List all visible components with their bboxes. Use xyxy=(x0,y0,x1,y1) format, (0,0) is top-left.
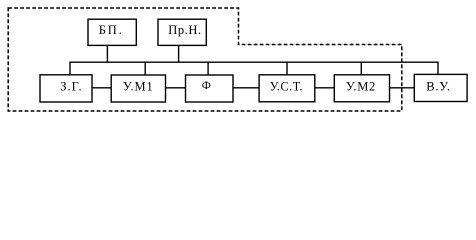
svg-text:Пр.Н.: Пр.Н. xyxy=(168,23,202,37)
wire UM1-F xyxy=(166,87,186,89)
svg-text:У.М2: У.М2 xyxy=(346,79,376,93)
wire UST-UM2 xyxy=(315,87,335,89)
block VU (output amplifier) xyxy=(414,74,467,101)
block BP (power supply) xyxy=(88,19,136,45)
block UM2 xyxy=(334,75,389,102)
block PrN xyxy=(158,19,206,45)
svg-text:В.У.: В.У. xyxy=(426,79,451,93)
block diagram of a transmitter/receiver system xyxy=(0,0,476,124)
svg-text:З.Г.: З.Г. xyxy=(60,80,82,94)
wire bus to UST xyxy=(286,62,288,75)
wire BP to bus xyxy=(106,45,108,62)
svg-text:У.М1: У.М1 xyxy=(123,80,154,94)
dashed enclosure outline xyxy=(8,8,402,111)
block UST xyxy=(259,75,315,102)
svg-text:БП.: БП. xyxy=(99,23,124,37)
wire bus to UM1 xyxy=(144,62,146,75)
wire F-UST xyxy=(233,87,259,89)
svg-text:У.С.Т.: У.С.Т. xyxy=(270,79,303,93)
bus wire (horizontal) xyxy=(70,62,438,75)
wire ZG-UM1 xyxy=(92,87,111,89)
svg-text:Ф: Ф xyxy=(202,80,212,92)
wire bus to F xyxy=(207,62,209,75)
block F (filter) xyxy=(186,75,234,102)
wire bus to UM2 xyxy=(360,62,362,75)
wire UM2-VU xyxy=(390,87,415,89)
block UM1 xyxy=(111,75,165,102)
block ZG (master oscillator) xyxy=(40,75,92,102)
wire PrN to bus xyxy=(178,45,180,62)
